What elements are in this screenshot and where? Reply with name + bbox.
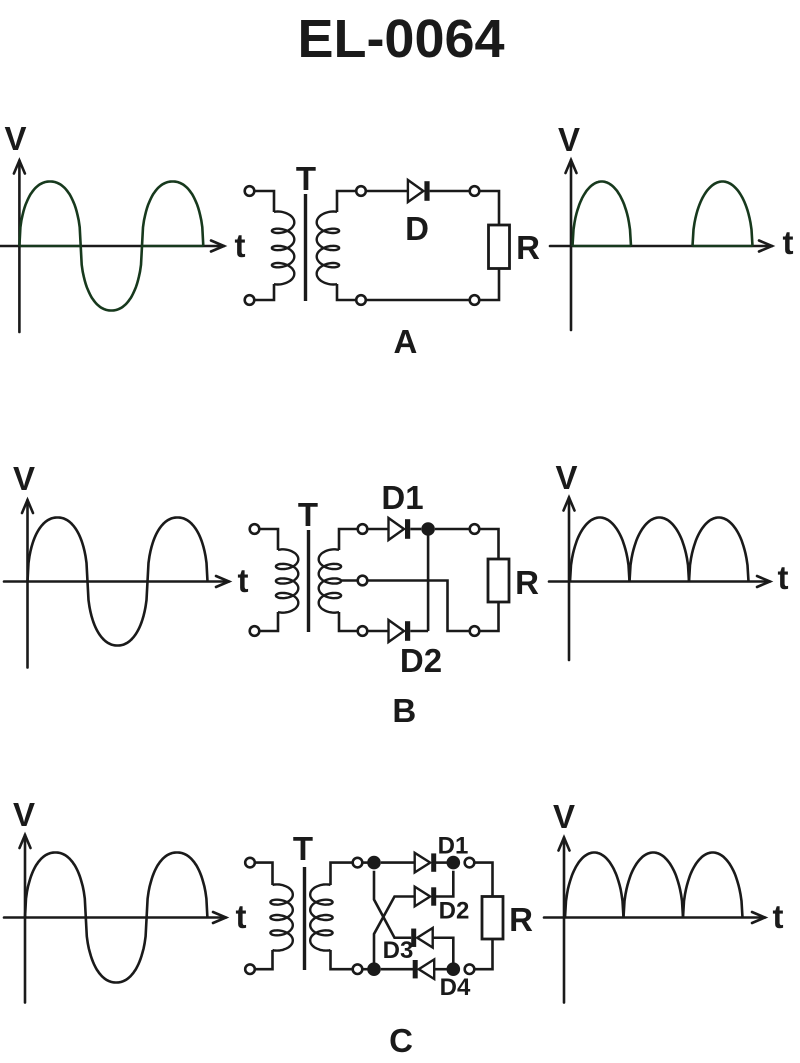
- resistor R (C): [482, 897, 503, 940]
- junction dot secondary top (C): [367, 856, 381, 870]
- wire to diode D1: [367, 528, 388, 531]
- wire secondary top (C): [331, 863, 353, 885]
- transformer T (B) core: [307, 530, 310, 632]
- node secondary top (A): [356, 186, 366, 196]
- svg-text:D: D: [405, 210, 429, 247]
- node load top (C): [465, 858, 475, 868]
- transformer T (B) secondary coil: [319, 549, 341, 612]
- wire to diode D2: [367, 630, 388, 633]
- svg-text:t: t: [236, 898, 247, 935]
- svg-text:D1: D1: [438, 833, 469, 860]
- graph A-out axes: [550, 160, 772, 330]
- wire secondary top (B): [339, 529, 358, 550]
- svg-text:D2: D2: [400, 642, 442, 679]
- svg-text:t: t: [773, 898, 784, 935]
- wire junction to node (B): [435, 528, 470, 531]
- svg-text:t: t: [235, 227, 246, 264]
- transformer T (A) core: [304, 194, 307, 301]
- wire secondary bottom (B): [339, 612, 358, 631]
- diode D2: [389, 620, 411, 642]
- svg-text:V: V: [555, 459, 577, 496]
- transformer T (B) primary coil: [276, 549, 298, 612]
- transformer T (C) primary coil: [270, 884, 292, 950]
- graph B-out hump 3: [689, 518, 749, 582]
- transformer T (B) primary terminal top: [250, 524, 260, 534]
- wire bottom rail to D4 (C): [381, 968, 413, 971]
- diode D4: [413, 959, 435, 979]
- transformer T (A) primary coil: [272, 212, 294, 285]
- svg-text:V: V: [13, 460, 35, 497]
- wire node to junction top (C): [362, 861, 368, 864]
- node load top (B): [470, 524, 480, 534]
- graph C-out hump 2: [624, 853, 684, 918]
- wire secondary top (A): [337, 191, 356, 212]
- node secondary bottom (C): [353, 964, 363, 974]
- wire D4 to junction: [434, 968, 447, 971]
- graph A-out hump 2: [693, 182, 753, 247]
- wire D1 to junction: [410, 528, 421, 531]
- junction dot secondary bottom (C): [367, 962, 381, 976]
- svg-text:t: t: [783, 224, 794, 261]
- node load bottom (A): [470, 295, 480, 305]
- node secondary top (C): [353, 858, 363, 868]
- diode D1: [415, 853, 437, 873]
- transformer T (C) primary terminal bottom: [245, 964, 255, 974]
- transformer T (A) primary terminal bottom: [245, 295, 255, 305]
- graph C-out axes: [544, 838, 765, 1003]
- wire secondary center tap (B): [341, 579, 358, 582]
- wire D2 cathode up to dot: [435, 871, 454, 897]
- transformer T (B) primary terminal bottom: [250, 626, 260, 636]
- diode D1: [389, 518, 411, 540]
- graph C-out hump 1: [565, 853, 624, 918]
- wire resistor bottom (B): [479, 602, 498, 631]
- junction dot D4 cathode: [447, 962, 461, 976]
- wire node to junction bottom (C): [362, 968, 368, 971]
- wire cross bottom-dot to D2 row: [374, 897, 415, 963]
- node load top (A): [470, 186, 480, 196]
- diode D: [408, 180, 430, 202]
- svg-text:t: t: [778, 559, 789, 596]
- graph B-out hump 2: [630, 518, 690, 582]
- node secondary top (B): [358, 524, 368, 534]
- wire node to resistor top (C): [474, 863, 492, 898]
- junction dot D1 cathode: [447, 856, 461, 870]
- svg-text:V: V: [558, 121, 580, 158]
- wire resistor bottom (C): [474, 940, 492, 969]
- graph A-in sine wave: [19, 182, 203, 311]
- transformer T (C) core: [303, 867, 306, 970]
- svg-text:B: B: [392, 692, 416, 729]
- graph B-out axes: [549, 498, 770, 661]
- node load bottom (C): [465, 964, 475, 974]
- graph B-in axes: [4, 500, 229, 668]
- resistor R (A): [489, 225, 510, 269]
- resistor R (B): [488, 559, 509, 602]
- svg-text:V: V: [13, 796, 35, 833]
- svg-text:D3: D3: [383, 937, 414, 964]
- graph C-in axes: [4, 835, 226, 1003]
- node secondary bottom (B): [358, 626, 368, 636]
- wire center tap to load (B): [367, 581, 469, 632]
- wire to diode D: [366, 190, 408, 193]
- wire primary top (A): [254, 191, 274, 212]
- graph B-in sine wave: [28, 518, 208, 646]
- wire D2 to vertical: [410, 630, 428, 633]
- graph B-out hump 1: [570, 518, 630, 582]
- diode D2: [415, 887, 437, 907]
- transformer T (C) primary terminal top: [245, 858, 255, 868]
- wire diode to node (A): [430, 190, 470, 193]
- graph A-in green axis overlay: [19, 245, 203, 247]
- wire secondary bottom (A): [337, 284, 356, 300]
- svg-text:EL-0064: EL-0064: [297, 9, 504, 69]
- svg-text:D1: D1: [381, 479, 423, 516]
- diode D3: [411, 928, 433, 948]
- svg-text:T: T: [298, 496, 318, 533]
- node load bottom (B): [470, 626, 480, 636]
- svg-text:V: V: [4, 120, 26, 157]
- wire D1 to junction (C): [435, 861, 447, 864]
- svg-text:R: R: [516, 229, 540, 266]
- graph A-out hump 1: [573, 182, 632, 247]
- wire node to resistor top (B): [479, 529, 498, 559]
- transformer T (A) primary terminal top: [245, 186, 255, 196]
- wire primary top (B): [259, 529, 278, 550]
- graph C-in sine wave: [25, 853, 207, 983]
- svg-text:R: R: [509, 901, 533, 938]
- wire primary bottom (B): [259, 612, 278, 631]
- wire top rail to D1: [381, 861, 415, 864]
- wire cross top-dot to D3 row: [374, 871, 411, 938]
- wire D3 anode down to dot: [433, 938, 454, 963]
- graph A-in axes: [0, 161, 224, 333]
- wire primary bottom (A): [254, 284, 274, 300]
- svg-text:C: C: [389, 1022, 413, 1059]
- svg-text:R: R: [515, 564, 539, 601]
- graph C-out hump 3: [683, 853, 743, 918]
- node secondary center (B): [358, 576, 368, 586]
- wire junction down to D2 output: [427, 529, 430, 631]
- wire secondary bottom (C): [331, 950, 353, 969]
- svg-text:A: A: [393, 323, 417, 360]
- junction dot (B): [421, 522, 435, 536]
- svg-text:D2: D2: [439, 898, 470, 925]
- transformer T (C) secondary coil: [310, 884, 332, 950]
- wire resistor bottom (A): [479, 269, 499, 301]
- svg-text:T: T: [293, 830, 313, 867]
- wire node to resistor top (A): [479, 191, 499, 225]
- node secondary bottom (A): [356, 295, 366, 305]
- transformer T (A) secondary coil: [317, 212, 339, 285]
- graph A-out green axis overlay: [573, 245, 753, 247]
- svg-text:T: T: [296, 160, 316, 197]
- wire primary bottom (C): [255, 950, 273, 969]
- svg-text:t: t: [238, 562, 249, 599]
- svg-text:D4: D4: [440, 974, 471, 1001]
- wire bottom rail (A): [366, 299, 470, 302]
- svg-text:V: V: [553, 798, 575, 835]
- wire primary top (C): [255, 863, 273, 885]
